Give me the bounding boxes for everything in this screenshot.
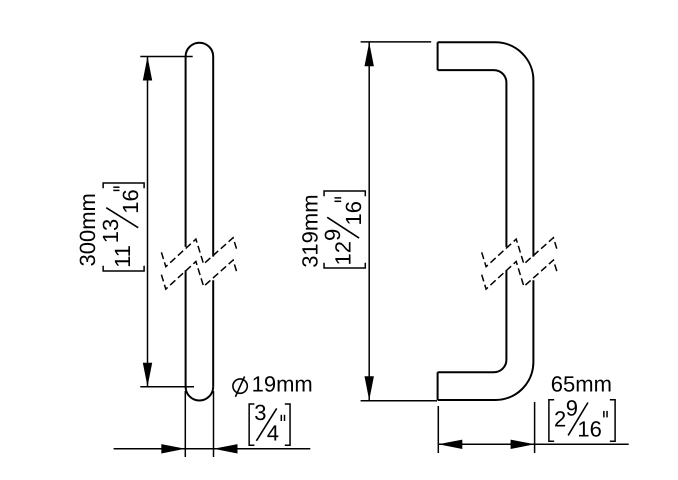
left square bracket: [249, 404, 254, 445]
dimension 319mm: arrowhead up: [365, 42, 374, 66]
dimension 319mm: bottom extension line: [361, 400, 437, 402]
svg-text:4: 4: [267, 420, 279, 445]
dimension dia19: dimension line: [114, 448, 311, 450]
handle side view: right outline upper segment: [212, 57, 214, 257]
diameter symbol slash: [235, 376, 244, 396]
fraction slash: [327, 217, 359, 238]
dimension 319mm: dimension line: [368, 42, 370, 400]
svg-text:16: 16: [577, 416, 601, 441]
svg-text:13: 13: [98, 219, 123, 243]
fraction slash: [568, 403, 588, 436]
inch double-prime stroke 2: [606, 411, 608, 418]
svg-text:65mm: 65mm: [551, 372, 612, 397]
dimension 300mm: imperial label [11 13/16"] (rotated): [98, 183, 144, 271]
handle front view: outer contour bottom corner and leg: [438, 280, 534, 400]
inch double-prime stroke 2: [335, 197, 342, 199]
dimension dia19: right extension line: [213, 391, 215, 457]
svg-text:16: 16: [341, 201, 366, 225]
left square bracket: [103, 266, 144, 271]
right square bracket: [610, 400, 615, 442]
dimension 65mm: arrowhead pointing left: [438, 440, 462, 449]
dimension 65mm: imperial label [2 9/16"]: [549, 395, 615, 441]
svg-text:3: 3: [254, 400, 266, 425]
dimension 319mm: imperial label [12 9/16"] (rotated): [320, 191, 366, 268]
dimension 65mm: right extension line: [534, 402, 536, 453]
break mark side view: upper zigzag dashed line: [161, 238, 237, 267]
dimension 319mm: arrowhead down: [365, 376, 374, 400]
break mark front view: lower zigzag dashed line: [482, 260, 558, 289]
svg-text:11: 11: [110, 245, 135, 268]
dimension 300mm: top extension line: [140, 56, 192, 58]
handle side view: left outline upper segment: [185, 57, 187, 247]
inch double-prime stroke 1: [603, 411, 605, 418]
dimension dia19: arrowhead pointing right: [161, 444, 185, 453]
inch double-prime stroke 1: [280, 415, 282, 421]
dimension 300mm: dimension line: [147, 57, 149, 387]
break mark side view: lower zigzag dashed line: [161, 260, 237, 289]
handle front view: inner contour bottom: [438, 270, 507, 372]
left square bracket: [324, 263, 365, 268]
dimension 319mm: value label "319mm" (rotated): [298, 194, 323, 267]
handle front view: inner contour top: [438, 70, 507, 247]
inch double-prime stroke 1: [335, 200, 342, 202]
dimension dia19: left extension line: [184, 391, 186, 457]
handle side view: right outline lower segment: [212, 280, 214, 387]
svg-text:16: 16: [118, 189, 143, 213]
svg-text:12: 12: [331, 241, 356, 265]
inch double-prime stroke 1: [113, 189, 119, 191]
handle side view: top end arc: [186, 43, 214, 57]
svg-text:9: 9: [566, 395, 578, 420]
inch double-prime stroke 2: [113, 186, 119, 188]
right square bracket: [324, 191, 365, 196]
handle front view: top end cap: [437, 42, 439, 70]
fraction slash: [106, 208, 138, 228]
dimension 300mm: arrowhead down: [143, 363, 152, 387]
dimension 65mm: arrowhead pointing right: [511, 440, 535, 449]
svg-text:9: 9: [320, 229, 345, 241]
svg-text:2: 2: [554, 406, 566, 431]
dimension dia19: arrowhead pointing left: [214, 444, 238, 453]
dimension 300mm: arrowhead up: [143, 57, 152, 81]
diameter symbol circle: [233, 379, 247, 393]
handle side view: left outline lower segment: [185, 270, 187, 386]
dimension 65mm: left extension line: [437, 406, 439, 453]
handle side view: bottom end arc: [186, 387, 214, 401]
dimension 65mm: dimension line with trailing leader: [438, 443, 628, 445]
right square bracket: [285, 404, 290, 445]
dimension 319mm: top extension line: [361, 41, 432, 43]
right square bracket: [103, 183, 144, 188]
svg-text:300mm: 300mm: [75, 193, 100, 266]
dimension 300mm: bottom extension line: [140, 386, 194, 388]
handle front view: outer contour top leg and corner: [438, 42, 534, 256]
left square bracket: [549, 400, 554, 442]
dimension dia19: imperial label [3/4"]: [249, 400, 290, 445]
handle front view: bottom end cap: [437, 372, 439, 400]
fraction slash: [256, 408, 276, 440]
break mark front view: upper zigzag dashed line: [482, 238, 558, 267]
dimension 300mm: value label "300mm" (rotated): [75, 193, 100, 266]
svg-text:19mm: 19mm: [252, 372, 313, 397]
inch double-prime stroke 2: [284, 415, 286, 421]
